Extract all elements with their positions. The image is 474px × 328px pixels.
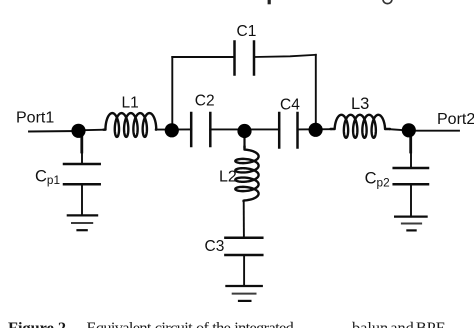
wire C3 to ground (243, 255, 245, 286)
wire N5 down to Cp2 (409, 134, 412, 152)
top cropped text descender p (268, 0, 271, 4)
ground under Cp2 (395, 216, 427, 218)
node N1 (Port1 junction) (71, 124, 85, 138)
node N5 (Port2 junction) (402, 123, 416, 137)
capacitor C4 plates (278, 113, 281, 148)
node N3 (C2/C4/L2 junction) (237, 124, 251, 138)
capacitor Cp1 plates (64, 163, 100, 166)
capacitor Cp2 plates (394, 167, 428, 170)
svg-text:Port2: Port2 (437, 111, 474, 128)
wire N1 to L1 (79, 129, 105, 132)
svg-text:Cp1: Cp1 (35, 168, 60, 188)
svg-text:C2: C2 (195, 92, 215, 109)
svg-text:Cp2: Cp2 (365, 170, 390, 190)
svg-text:C3: C3 (205, 238, 225, 255)
capacitor C1 plates (233, 42, 236, 75)
capacitor C3 plates (225, 237, 262, 240)
wire Port1 lead (29, 130, 79, 133)
svg-text:L3: L3 (351, 95, 369, 113)
wire C1 top right (254, 55, 316, 57)
node N4 (C4/C1/L3 junction) (309, 123, 323, 137)
svg-text:L2: L2 (219, 169, 237, 186)
wire Cp1 to ground (81, 184, 83, 215)
svg-text:Port1: Port1 (16, 109, 54, 126)
wire C2 to C4 (through node N3) (210, 128, 279, 130)
inductor L2 (235, 146, 258, 201)
wire C1 right riser (315, 55, 317, 130)
svg-text:C1: C1 (237, 23, 257, 40)
wire Port2 lead (409, 130, 460, 132)
wire C4 to L3 (through node N4) (298, 128, 331, 130)
wire L2 to C3 (243, 201, 245, 238)
ground under Cp1 (68, 214, 97, 216)
inductor L3 (331, 115, 391, 138)
wire L3 to N5 (390, 129, 409, 130)
wire N3 down stub (243, 131, 245, 147)
wire L1 to C2 (through node) (156, 128, 191, 130)
wire C1 left riser (171, 57, 173, 130)
capacitor C2 plates (190, 113, 193, 146)
top cropped text descender g (383, 0, 392, 4)
ground under C3 (226, 285, 261, 287)
wire Cp2 to ground (410, 184, 412, 216)
svg-text:L1: L1 (122, 95, 139, 112)
svg-text:C4: C4 (280, 97, 300, 114)
node N2 (L1/C2/C1 junction) (165, 123, 179, 137)
wire C1 top left (172, 56, 234, 58)
inductor L1 (104, 113, 157, 137)
wire N1 down to Cp1 (80, 134, 83, 152)
caption (cropped at bottom edge) (8, 318, 70, 328)
